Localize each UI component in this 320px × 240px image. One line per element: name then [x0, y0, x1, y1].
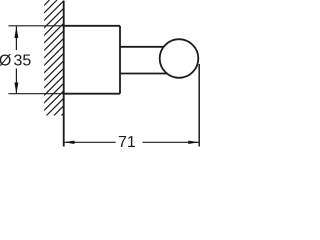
svg-text:35: 35	[14, 52, 32, 69]
71 dimension line right segment	[143, 141, 199, 143]
extension line bottom (dia 35, left part)	[9, 93, 64, 95]
dia35 dimension line upper segment	[15, 26, 17, 50]
flange top edge	[64, 25, 121, 27]
technical dimension drawing: wall-mounted hook, side view	[0, 0, 200, 150]
flange right edge	[119, 26, 121, 94]
svg-text:71: 71	[118, 134, 136, 150]
71 arrow left	[64, 141, 75, 144]
dia35 arrow down	[14, 83, 18, 94]
right extension line of 71 dim	[198, 64, 200, 147]
extension line top (dia 35, left part)	[9, 25, 64, 27]
svg-text:Ø: Ø	[0, 52, 11, 69]
dia35 arrow up	[14, 26, 18, 38]
flange bottom edge	[64, 93, 121, 95]
wall hatching	[0, 0, 177, 150]
ball (hook knob)	[160, 39, 199, 78]
dia35 dimension line lower segment	[15, 69, 17, 94]
71 dimension line left segment	[64, 141, 116, 143]
stem bottom line	[120, 73, 168, 75]
stem top line	[120, 46, 164, 48]
71 arrow right	[188, 141, 199, 144]
wall face line (also left extension line of 71 dim)	[63, 1, 65, 147]
